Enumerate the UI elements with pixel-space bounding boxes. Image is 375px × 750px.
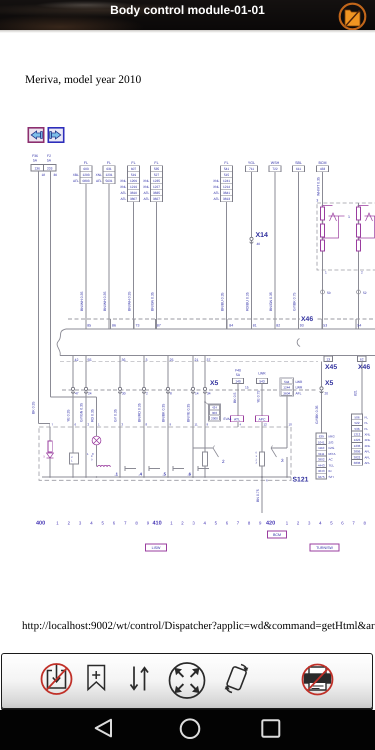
svg-text:AFL: AFL [120, 197, 126, 201]
svg-text:8: 8 [170, 392, 172, 396]
svg-text:7: 7 [237, 521, 240, 526]
svg-text:BN/BU 0.35: BN/BU 0.35 [221, 292, 225, 311]
svg-text:3: 3 [256, 462, 258, 465]
svg-text:6: 6 [113, 521, 116, 526]
svg-text:BN/WH 0.35: BN/WH 0.35 [128, 291, 132, 311]
svg-text:FL: FL [365, 415, 369, 419]
svg-text:535: 535 [154, 167, 160, 171]
svg-text:AFL: AFL [73, 179, 79, 183]
svg-text:631: 631 [106, 167, 112, 171]
svg-text:BN/GN 0.35: BN/GN 0.35 [151, 292, 155, 311]
svg-text:AFL: AFL [96, 179, 102, 183]
svg-text:1223: 1223 [354, 438, 361, 442]
svg-text:424: 424 [212, 406, 217, 410]
svg-text:506: 506 [354, 415, 359, 419]
svg-text:3835: 3835 [153, 191, 160, 195]
svg-text:BN/WH 0.35: BN/WH 0.35 [103, 291, 107, 311]
svg-text:BN/YE 0.35: BN/YE 0.35 [187, 404, 191, 422]
svg-text:3807: 3807 [130, 197, 137, 201]
svg-text:4: 4 [319, 521, 322, 526]
svg-text:515: 515 [224, 173, 230, 177]
svg-text:40: 40 [257, 242, 261, 246]
svg-text:FL: FL [154, 161, 158, 165]
svg-text:0803: 0803 [82, 179, 89, 183]
svg-text:AFL: AFL [143, 197, 149, 201]
svg-text:XBL: XBL [73, 173, 79, 177]
svg-text:85: 85 [87, 324, 91, 328]
svg-text:5A: 5A [236, 373, 241, 377]
svg-text:639: 639 [319, 435, 324, 439]
svg-text:3836: 3836 [354, 461, 361, 465]
svg-text:XNL: XNL [120, 179, 126, 183]
svg-text:FL: FL [365, 427, 369, 431]
svg-text:2: 2 [181, 521, 184, 526]
svg-text:.1: .1 [115, 471, 119, 476]
svg-text:611: 611 [296, 167, 301, 171]
svg-text:5: 5 [43, 455, 45, 459]
svg-text:5: 5 [330, 521, 333, 526]
svg-text:LISW: LISW [152, 546, 161, 550]
svg-text:4043: 4043 [318, 469, 325, 473]
svg-text:LWR: LWR [296, 386, 304, 390]
svg-text:15: 15 [245, 386, 249, 390]
svg-text:50: 50 [327, 291, 331, 295]
svg-text:55: 55 [88, 358, 92, 362]
svg-text:.5: .5 [163, 471, 167, 476]
svg-text:AC: AC [329, 458, 334, 462]
svg-text:9: 9 [207, 423, 209, 427]
svg-text:3: 3 [308, 521, 311, 526]
svg-text:2: 2 [68, 521, 71, 526]
svg-text:2: 2 [361, 271, 363, 275]
svg-text:AFL: AFL [120, 191, 126, 195]
svg-text:TEL: TEL [329, 463, 335, 467]
svg-text:73: 73 [136, 324, 140, 328]
svg-text:87: 87 [157, 324, 161, 328]
svg-text:1244: 1244 [283, 386, 290, 390]
svg-text:GY 0.35: GY 0.35 [114, 409, 118, 422]
svg-text:84: 84 [229, 324, 233, 328]
svg-text:X46: X46 [358, 364, 370, 371]
svg-text:9: 9 [259, 521, 262, 526]
svg-text:6: 6 [341, 521, 344, 526]
svg-text:36: 36 [122, 358, 126, 362]
svg-text:903: 903 [212, 411, 217, 415]
svg-text:FL: FL [84, 161, 88, 165]
svg-text:I/RG: I/RG [329, 435, 336, 439]
svg-text:3: 3 [316, 199, 318, 203]
svg-text:3604: 3604 [283, 392, 290, 396]
svg-text:4: 4 [240, 423, 242, 427]
svg-text:I/ZG: I/ZG [329, 446, 335, 450]
svg-text:FL: FL [224, 161, 228, 165]
svg-text:3822: 3822 [354, 455, 361, 459]
svg-text:TURN/SW: TURN/SW [316, 546, 333, 550]
svg-text:XNL: XNL [143, 179, 149, 183]
svg-text:X5: X5 [325, 380, 334, 387]
svg-text:0: 0 [91, 459, 93, 462]
svg-text:BN 0.75: BN 0.75 [256, 489, 260, 502]
svg-text:AFL: AFL [213, 197, 219, 201]
svg-text:711: 711 [249, 167, 254, 171]
svg-text:BN/WH 0.35: BN/WH 0.35 [80, 291, 84, 311]
svg-text:XNL: XNL [365, 433, 371, 437]
svg-text:YE 0.35: YE 0.35 [67, 409, 71, 422]
svg-text:2: 2 [146, 392, 148, 396]
svg-text:5631: 5631 [105, 179, 112, 183]
svg-text:BN/GN 0.35: BN/GN 0.35 [269, 292, 273, 311]
svg-text:YE 0.75: YE 0.75 [257, 390, 261, 403]
svg-text:5A: 5A [33, 159, 38, 163]
svg-text:M/TA: M/TA [329, 452, 336, 456]
svg-text:93: 93 [300, 324, 304, 328]
svg-text:3841: 3841 [223, 191, 230, 195]
svg-text:3: 3 [79, 521, 82, 526]
svg-text:X5: X5 [210, 380, 219, 387]
svg-text:18: 18 [42, 173, 46, 177]
svg-text:536: 536 [354, 427, 359, 431]
svg-text:34: 34 [207, 392, 211, 396]
svg-text:APC: APC [259, 417, 267, 421]
svg-text:GY/BK 0.75: GY/BK 0.75 [293, 292, 297, 311]
svg-text:.4: .4 [139, 471, 143, 476]
svg-text:1227: 1227 [153, 185, 160, 189]
svg-text:EVA4: EVA4 [224, 417, 232, 421]
svg-text:543: 543 [259, 379, 265, 383]
svg-text:FL: FL [365, 421, 369, 425]
svg-text:603: 603 [83, 167, 89, 171]
svg-text:8: 8 [248, 521, 251, 526]
svg-text:37: 37 [207, 358, 211, 362]
svg-text:4: 4 [90, 521, 93, 526]
svg-text:1: 1 [87, 452, 89, 456]
svg-text:54: 54 [357, 324, 361, 328]
svg-text:BN/RD 0.35: BN/RD 0.35 [138, 403, 142, 422]
svg-text:3475: 3475 [318, 475, 325, 479]
svg-text:ATL: ATL [234, 417, 240, 421]
svg-text:1231: 1231 [105, 173, 112, 177]
svg-text:3806: 3806 [354, 450, 361, 454]
svg-text:400: 400 [36, 521, 45, 527]
svg-text:RD 0.35: RD 0.35 [91, 409, 95, 422]
svg-text:522: 522 [354, 421, 359, 425]
svg-text:YGL: YGL [248, 161, 255, 165]
svg-text:52: 52 [363, 291, 367, 295]
svg-text:XNL: XNL [365, 444, 371, 448]
svg-text:XNL: XNL [213, 179, 219, 183]
svg-text:433: 433 [320, 167, 326, 171]
svg-text:2: 2 [297, 521, 300, 526]
svg-text:30: 30 [122, 392, 126, 396]
svg-text:3: 3 [122, 423, 124, 427]
svg-text:XNL: XNL [143, 185, 149, 189]
svg-text:3827: 3827 [153, 197, 160, 201]
svg-text:BCM: BCM [273, 533, 281, 537]
svg-text:X46: X46 [301, 316, 313, 323]
svg-text:519: 519 [131, 173, 137, 177]
svg-text:6: 6 [266, 479, 268, 483]
svg-text:1110: 1110 [318, 446, 325, 450]
svg-text:11: 11 [195, 423, 198, 427]
svg-text:7: 7 [352, 521, 355, 526]
svg-text:25: 25 [170, 358, 174, 362]
svg-text:6: 6 [75, 423, 77, 427]
svg-text:BCM: BCM [319, 161, 327, 165]
svg-text:LWR: LWR [258, 372, 266, 376]
svg-text:1203: 1203 [82, 173, 89, 177]
svg-text:1236: 1236 [354, 444, 361, 448]
svg-text:136: 136 [35, 167, 41, 171]
svg-text:1: 1 [98, 423, 100, 427]
svg-text:1: 1 [286, 521, 289, 526]
svg-text:BN/BK 0.35: BN/BK 0.35 [162, 404, 166, 422]
svg-text:7: 7 [124, 521, 127, 526]
svg-text:S121: S121 [293, 477, 309, 484]
svg-text:1212: 1212 [354, 433, 361, 437]
svg-text:3810: 3810 [130, 191, 137, 195]
svg-text:1214: 1214 [223, 185, 230, 189]
svg-text:1: 1 [56, 521, 59, 526]
svg-text:2000: 2000 [211, 416, 218, 420]
svg-text:14: 14 [195, 392, 199, 396]
svg-text:3813: 3813 [223, 197, 230, 201]
svg-text:AFL: AFL [143, 191, 149, 195]
svg-text:5A: 5A [47, 159, 52, 163]
svg-text:3: 3 [146, 358, 148, 362]
svg-text:X45: X45 [325, 364, 337, 371]
svg-text:LWR: LWR [296, 380, 304, 384]
svg-text:S/H: S/H [329, 475, 334, 479]
svg-text:1209: 1209 [130, 179, 137, 183]
svg-text:47: 47 [75, 392, 79, 396]
svg-text:420: 420 [266, 521, 275, 527]
svg-text:410: 410 [153, 521, 162, 527]
svg-text:10: 10 [289, 423, 293, 427]
svg-text:5: 5 [215, 521, 218, 526]
svg-text:203: 203 [47, 167, 53, 171]
svg-text:2: 2 [222, 459, 225, 464]
svg-text:3: 3 [192, 521, 195, 526]
svg-text:BK 0.5: BK 0.5 [233, 392, 237, 403]
svg-text:821: 821 [354, 390, 358, 396]
svg-text:F36: F36 [32, 154, 38, 158]
svg-text:8: 8 [146, 423, 148, 427]
svg-text:140: 140 [235, 379, 241, 383]
svg-text:AFL: AFL [365, 461, 371, 465]
svg-text:9: 9 [170, 423, 172, 427]
svg-text:8: 8 [135, 521, 138, 526]
svg-text:9: 9 [147, 521, 150, 526]
svg-text:722: 722 [272, 167, 278, 171]
svg-text:30: 30 [54, 173, 58, 177]
svg-text:AFL: AFL [365, 455, 371, 459]
svg-text:4: 4 [204, 521, 207, 526]
svg-text:9111: 9111 [318, 452, 325, 456]
svg-text:541: 541 [224, 167, 230, 171]
svg-text:ID: ID [329, 469, 333, 473]
svg-text:F2: F2 [47, 154, 51, 158]
svg-text:2: 2 [88, 423, 90, 427]
svg-text:24: 24 [88, 392, 92, 396]
svg-text:GY/BK 0.35: GY/BK 0.35 [315, 405, 319, 424]
svg-text:1219: 1219 [130, 185, 137, 189]
svg-text:13: 13 [326, 357, 330, 361]
svg-text:20: 20 [325, 392, 329, 396]
svg-text:AFL: AFL [296, 392, 302, 396]
svg-text:XNL: XNL [120, 185, 126, 189]
svg-text:62: 62 [360, 357, 364, 361]
svg-text:1: 1 [325, 271, 327, 275]
svg-text:5: 5 [102, 521, 105, 526]
svg-text:42: 42 [75, 358, 79, 362]
svg-text:544: 544 [284, 380, 289, 384]
svg-text:1235: 1235 [153, 179, 160, 183]
svg-text:53: 53 [323, 324, 327, 328]
svg-text:XNL: XNL [96, 173, 102, 177]
svg-text:X14: X14 [256, 232, 269, 239]
svg-text:1: 1 [348, 215, 350, 219]
svg-text:81: 81 [253, 324, 257, 328]
svg-text:BK 0.35: BK 0.35 [32, 401, 36, 414]
svg-text:FL: FL [131, 161, 135, 165]
svg-text:XNL: XNL [365, 438, 371, 442]
svg-text:12: 12 [264, 423, 268, 427]
svg-text:Z/G: Z/G [329, 440, 335, 444]
svg-text:527: 527 [154, 173, 160, 177]
svg-text:XNL: XNL [213, 185, 219, 189]
svg-text:AFL: AFL [213, 191, 219, 195]
svg-text:1041: 1041 [318, 440, 325, 444]
svg-text:WH/VT 0.35: WH/VT 0.35 [317, 177, 321, 196]
svg-text:4443: 4443 [318, 463, 325, 467]
svg-text:7: 7 [52, 423, 54, 427]
svg-text:3902: 3902 [318, 458, 325, 462]
svg-text:6: 6 [226, 521, 229, 526]
svg-text:82: 82 [276, 324, 280, 328]
svg-text:0: 0 [92, 452, 94, 456]
svg-text:1241: 1241 [223, 179, 230, 183]
svg-text:607: 607 [131, 167, 137, 171]
svg-text:.6: .6 [188, 471, 192, 476]
svg-text:RD/BU 0.35: RD/BU 0.35 [246, 292, 250, 311]
svg-text:86: 86 [112, 324, 116, 328]
svg-text:1: 1 [170, 521, 173, 526]
svg-text:WSH: WSH [271, 161, 280, 165]
svg-text:F40: F40 [235, 369, 241, 373]
svg-text:21: 21 [195, 358, 199, 362]
svg-text:3: 3 [281, 458, 284, 463]
svg-text:AFL: AFL [365, 450, 371, 454]
svg-text:SBL: SBL [295, 161, 302, 165]
svg-text:FL: FL [107, 161, 111, 165]
svg-text:8: 8 [364, 521, 367, 526]
svg-text:GY/GN 0.35: GY/GN 0.35 [80, 403, 84, 422]
